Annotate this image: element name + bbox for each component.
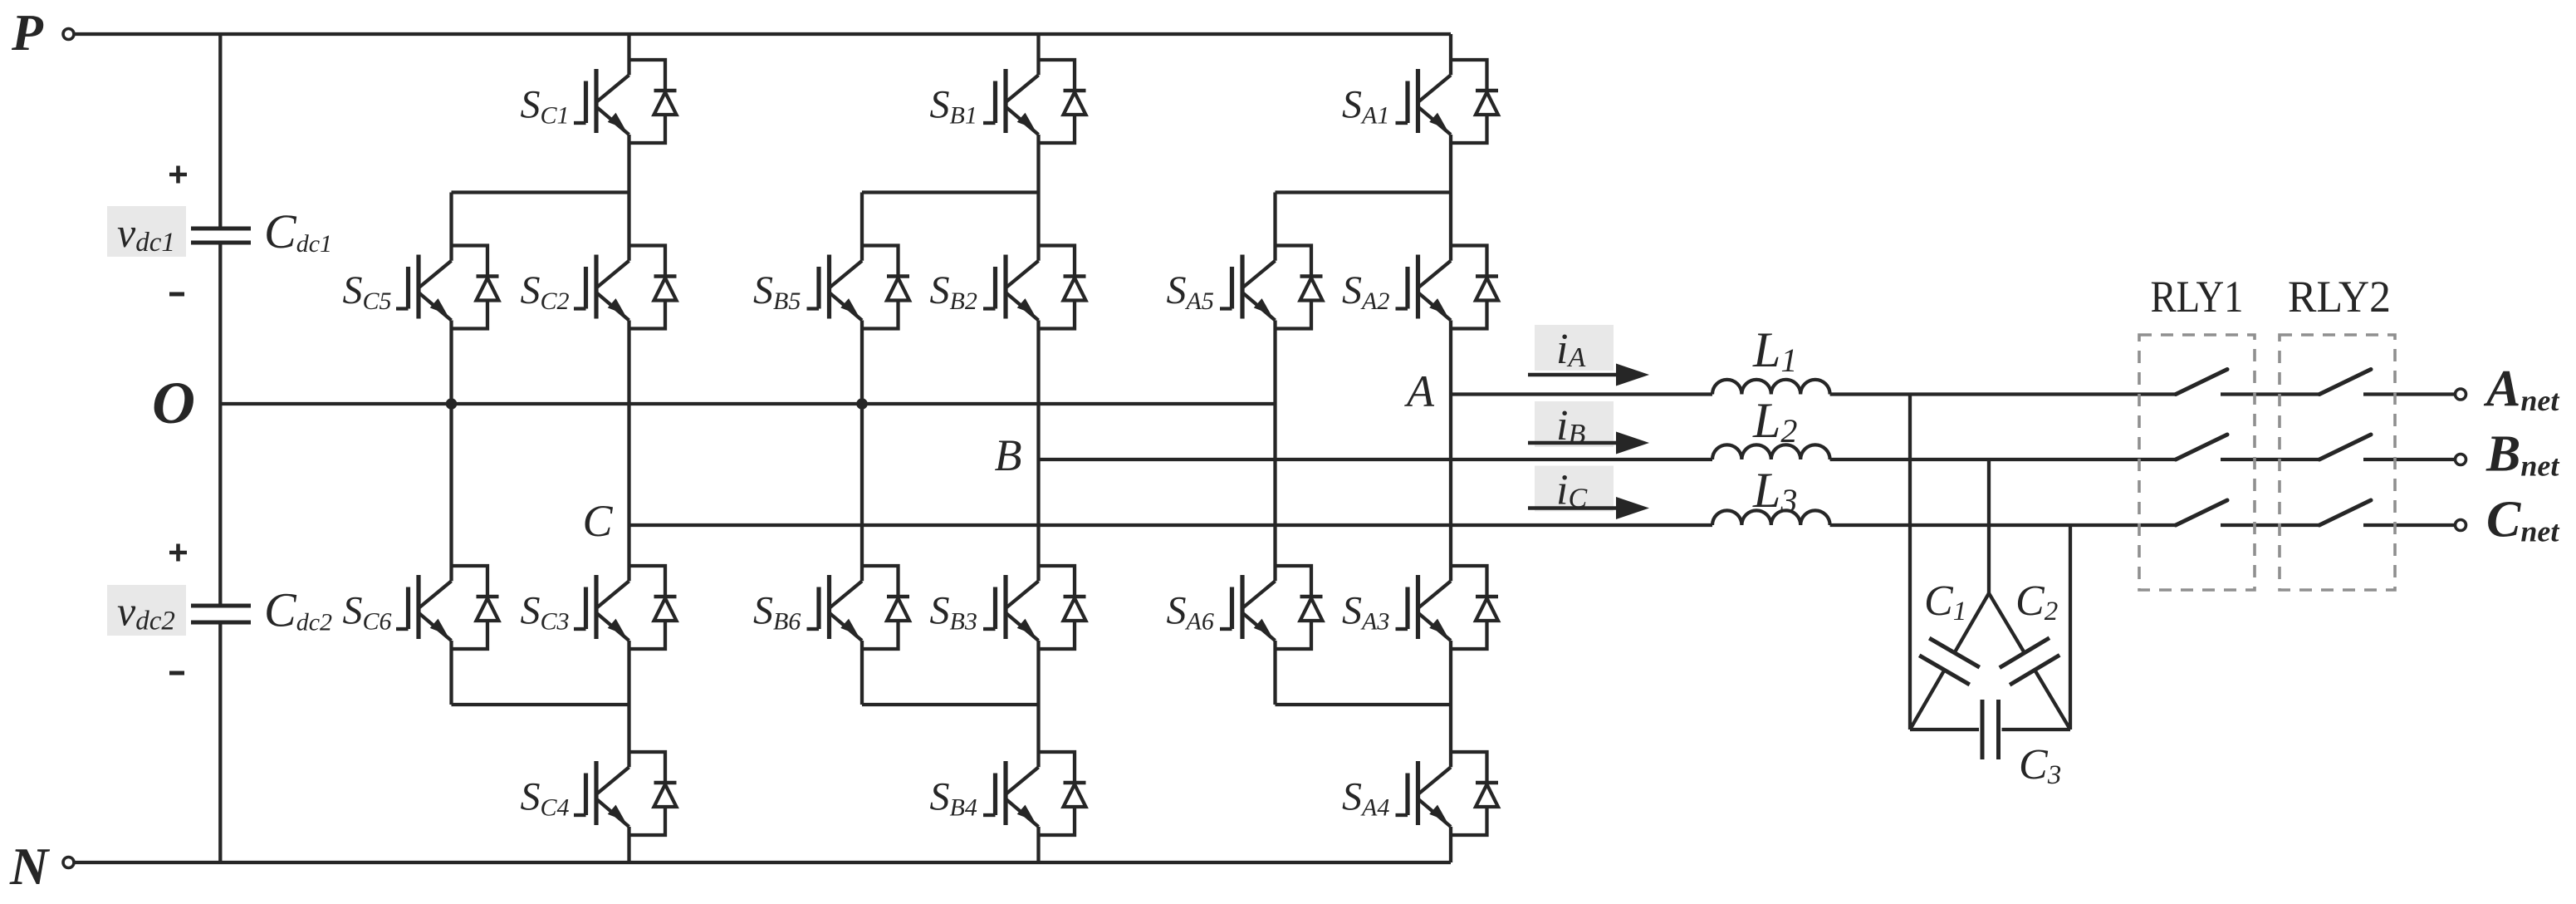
switch RLY1 phase C blade [2176, 500, 2227, 525]
transistor SC1 (IGBT) [574, 69, 629, 135]
label SC4 [521, 775, 570, 822]
label SA4 [1342, 775, 1389, 822]
transistor SC4 (IGBT) [574, 761, 629, 827]
label L2 [1752, 393, 1797, 450]
svg-text:O: O [152, 370, 195, 436]
node label B (phase output) [995, 430, 1022, 480]
polarity - of Cdc2 [169, 671, 184, 676]
wire filter delta right side [1989, 593, 2070, 730]
label SC2 [521, 268, 570, 315]
wire phase A to filter inductor [1451, 392, 1712, 395]
polarity - of Cdc1 [169, 292, 184, 297]
wire leg C main vertical [627, 34, 630, 862]
switch RLY1 phase B blade [2176, 435, 2227, 459]
wire phase B to filter inductor [1039, 458, 1713, 461]
terminal Bnet [2456, 454, 2466, 465]
svg-text:RLY2: RLY2 [2288, 272, 2391, 322]
wire filter tap phase C [2069, 525, 2072, 730]
node label C (phase output) [582, 496, 613, 546]
transistor SA1 (IGBT) [1396, 69, 1452, 135]
label Bnet [2485, 426, 2559, 483]
wire phase B between RLY1 and RLY2 [2221, 458, 2319, 461]
diode DA3 (antiparallel across SA3) [1451, 566, 1498, 649]
label iC (shaded) [1535, 466, 1614, 514]
wire phase C between RLY1 and RLY2 [2221, 523, 2319, 527]
label Cdc2 [264, 583, 332, 637]
diode DB1 (antiparallel across SB1) [1039, 60, 1086, 143]
wire leg C clamp bottom connector [452, 703, 629, 706]
label Cdc1 [264, 204, 332, 258]
capacitor C1 [1919, 638, 1980, 685]
diode DA4 (antiparallel across SA4) [1451, 752, 1498, 835]
diode DB6 (antiparallel across SB6) [862, 566, 909, 649]
label L1 [1752, 322, 1797, 379]
current arrow iA [1528, 364, 1649, 386]
svg-text:C: C [582, 496, 613, 546]
label SB4 [930, 775, 977, 822]
label vdc2 (shaded) [107, 585, 186, 636]
wire leg A clamp top connector [1276, 190, 1452, 194]
label RLY1 [2151, 272, 2244, 322]
node label O [152, 370, 195, 436]
label SA1 [1342, 83, 1389, 130]
transistor SA2 (IGBT) [1396, 255, 1452, 321]
wire phase A RLY2 to grid terminal [2363, 392, 2455, 395]
wire phase B RLY2 to grid terminal [2363, 458, 2455, 461]
transistor SC6 (IGBT) [396, 575, 452, 641]
label C3 [2019, 741, 2061, 790]
label SA6 [1167, 589, 1214, 636]
wire filter delta base [1910, 728, 2070, 731]
current arrow iC [1528, 497, 1649, 519]
wire phase C inductor to RLY1 [1830, 523, 2176, 527]
wire leg A clamp branch vertical [1273, 193, 1276, 705]
junction dot O rail / leg C clamp branch [446, 398, 458, 410]
terminal Cnet [2456, 520, 2466, 531]
switch RLY2 phase B blade [2319, 435, 2371, 459]
relay RLY1 dashed enclosure [2139, 335, 2255, 590]
label SB5 [753, 268, 801, 315]
label SA5 [1167, 268, 1214, 315]
label SC6 [343, 589, 392, 636]
diode DA2 (antiparallel across SA2) [1451, 246, 1498, 329]
node label P [11, 5, 44, 61]
label Cnet [2486, 492, 2559, 548]
label C2 [2015, 577, 2058, 626]
polarity + of Cdc1 [169, 166, 187, 184]
polarity + of Cdc2 [169, 544, 187, 562]
label Anet [2483, 361, 2559, 417]
wire filter tap phase A [1908, 395, 1912, 730]
node label A (phase output) [1404, 366, 1435, 416]
wire phase C RLY2 to grid terminal [2363, 523, 2455, 527]
wire leg B clamp top connector [862, 190, 1039, 194]
diode DC1 (antiparallel across SC1) [629, 60, 677, 143]
wire leg B clamp branch vertical [860, 193, 864, 705]
transistor SB2 (IGBT) [983, 255, 1039, 321]
svg-text:P: P [11, 5, 44, 61]
wire phase C to filter inductor [629, 523, 1713, 527]
junction dot O rail / leg B clamp branch [856, 398, 868, 410]
transistor SA6 (IGBT) [1220, 575, 1276, 641]
label L3 [1752, 463, 1797, 519]
label SB1 [930, 83, 977, 130]
switch RLY2 phase A blade [2319, 370, 2371, 395]
inductor L2 [1712, 445, 1830, 459]
diode DC2 (antiparallel across SC2) [629, 246, 677, 329]
diode DC6 (antiparallel across SC6) [452, 566, 499, 649]
terminal P [63, 29, 74, 40]
switch RLY1 phase A blade [2176, 370, 2227, 395]
transistor SA5 (IGBT) [1220, 255, 1276, 321]
label SB2 [930, 268, 977, 315]
diode DA5 (antiparallel across SA5) [1276, 246, 1323, 329]
wire N rail [74, 861, 1451, 864]
label SA3 [1342, 589, 1389, 636]
diode DB4 (antiparallel across SB4) [1039, 752, 1086, 835]
diode DC4 (antiparallel across SC4) [629, 752, 677, 835]
wire leg B main vertical [1036, 34, 1040, 862]
wire leg A main vertical [1449, 34, 1452, 862]
diode DB5 (antiparallel across SB5) [862, 246, 909, 329]
diode DB2 (antiparallel across SB2) [1039, 246, 1086, 329]
label SC3 [521, 589, 570, 636]
transistor SB4 (IGBT) [983, 761, 1039, 827]
capacitor C2 [2000, 638, 2059, 685]
label iA (shaded) [1535, 325, 1614, 373]
label SC5 [343, 268, 392, 315]
label SB6 [753, 589, 801, 636]
svg-text:RLY1: RLY1 [2151, 272, 2244, 322]
terminal Anet [2456, 389, 2466, 400]
label SA2 [1342, 268, 1389, 315]
svg-text:B: B [995, 430, 1022, 480]
diode DB3 (antiparallel across SB3) [1039, 566, 1086, 649]
current arrow iB [1528, 432, 1649, 454]
diode DA6 (antiparallel across SA6) [1276, 566, 1323, 649]
transistor SC5 (IGBT) [396, 255, 452, 321]
switch RLY2 phase C blade [2319, 500, 2371, 525]
transistor SC3 (IGBT) [574, 575, 629, 641]
label RLY2 [2288, 272, 2391, 322]
label SC1 [521, 83, 570, 130]
transistor SA3 (IGBT) [1396, 575, 1452, 641]
transistor SB1 (IGBT) [983, 69, 1039, 135]
capacitor C3 [1982, 700, 1999, 759]
label vdc1 (shaded) [107, 206, 186, 258]
inductor L1 [1712, 380, 1830, 395]
terminal N [63, 857, 74, 868]
wire leg C clamp branch vertical [449, 193, 453, 705]
transistor SB3 (IGBT) [983, 575, 1039, 641]
relay RLY2 dashed enclosure [2280, 335, 2395, 590]
diode DC3 (antiparallel across SC3) [629, 566, 677, 649]
label SB3 [930, 589, 977, 636]
wire P rail [74, 32, 1451, 36]
svg-text:A: A [1404, 366, 1435, 416]
wire phase A inductor to RLY1 [1830, 392, 2176, 395]
svg-text:N: N [9, 837, 51, 896]
wire filter tap phase B [1987, 459, 1991, 593]
wire phase B inductor to RLY1 [1830, 458, 2176, 461]
diode DA1 (antiparallel across SA1) [1451, 60, 1498, 143]
inductor L3 [1712, 510, 1830, 525]
node label N [9, 837, 51, 896]
transistor SB6 (IGBT) [807, 575, 863, 641]
wire O rail (neutral) [220, 402, 1275, 405]
diode DC5 (antiparallel across SC5) [452, 246, 499, 329]
label iB (shaded) [1535, 401, 1614, 450]
wire leg A clamp bottom connector [1276, 703, 1452, 706]
transistor SB5 (IGBT) [807, 255, 863, 321]
wire phase A between RLY1 and RLY2 [2221, 392, 2319, 395]
label C1 [1924, 577, 1966, 626]
transistor SC2 (IGBT) [574, 255, 629, 321]
wire DC bus vertical [218, 34, 222, 862]
transistor SA4 (IGBT) [1396, 761, 1452, 827]
capacitor Cdc1 [191, 228, 251, 243]
wire filter delta left side [1910, 593, 1989, 730]
wire leg C clamp top connector [452, 190, 629, 194]
capacitor Cdc2 [191, 606, 251, 622]
wire leg B clamp bottom connector [862, 703, 1039, 706]
